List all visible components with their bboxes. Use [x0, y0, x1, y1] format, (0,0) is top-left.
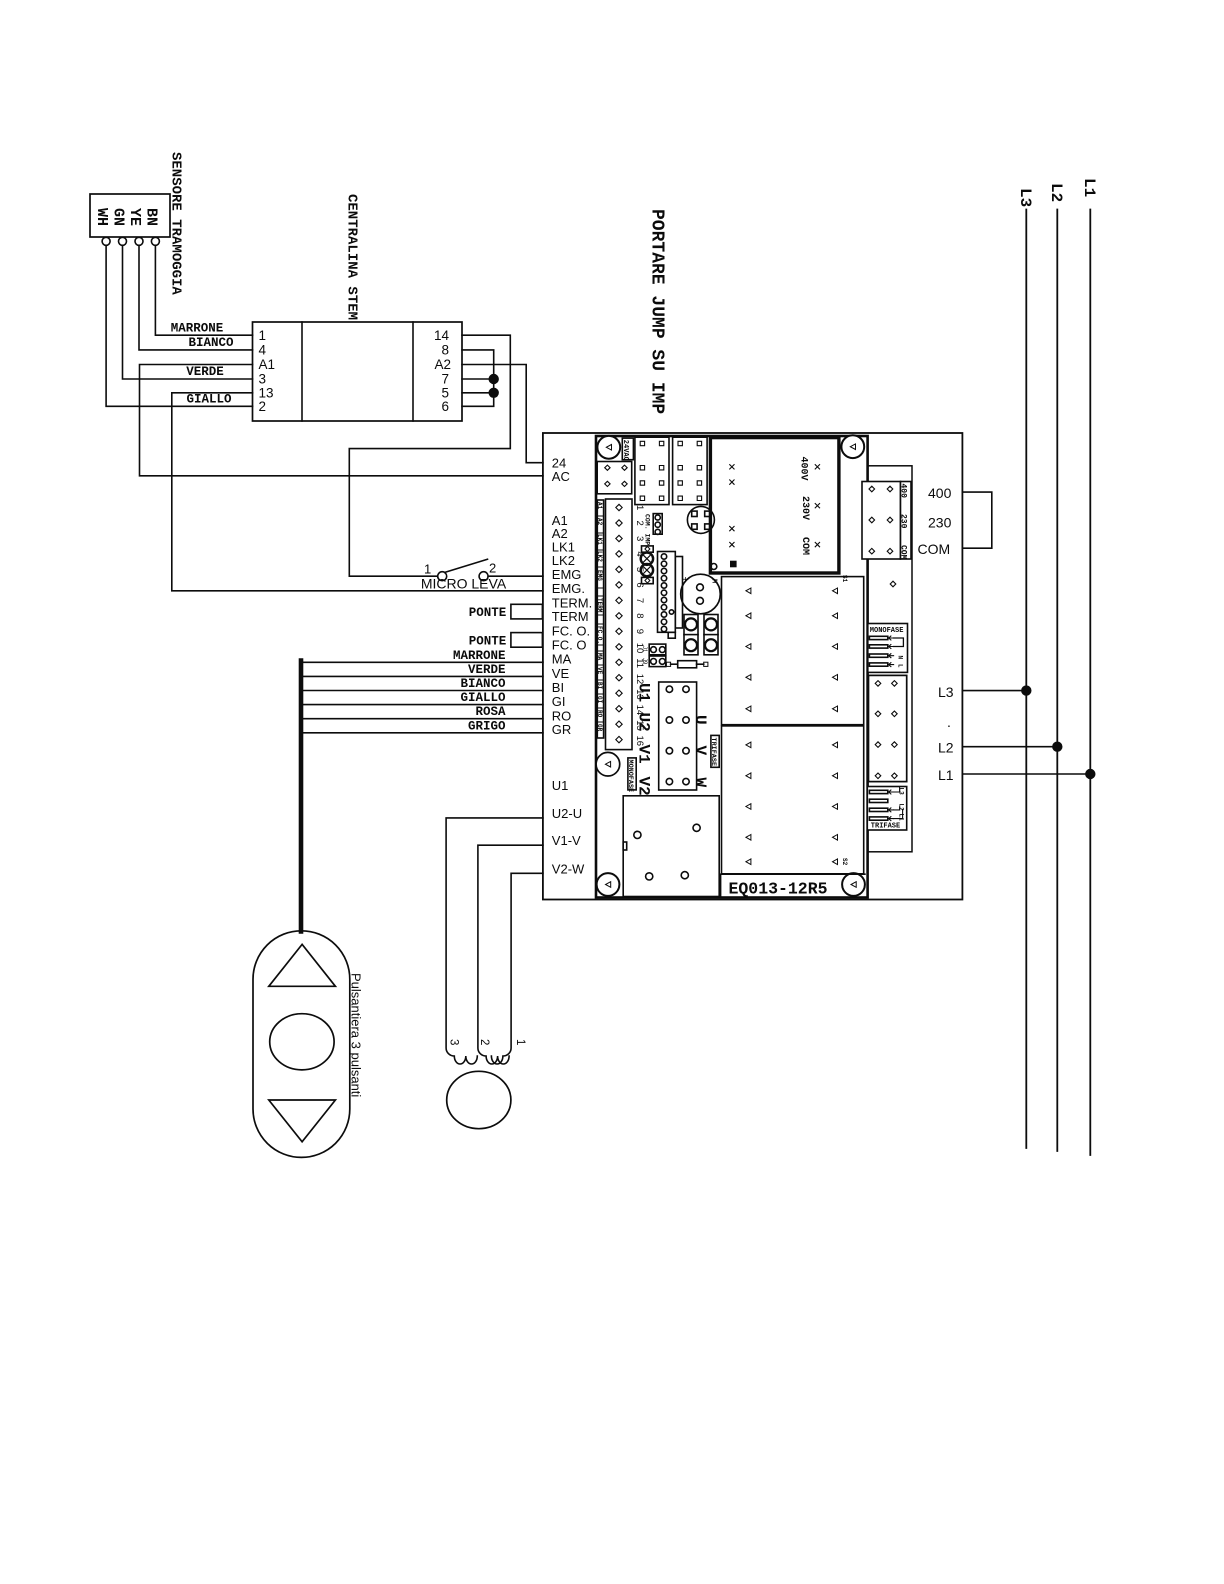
- jumper 400-COM bracket: [962, 492, 991, 548]
- pendant Pulsantiera body: [253, 931, 350, 1158]
- svg-text:L2: L2: [898, 804, 905, 812]
- wire MARRONE to MA: [303, 661, 543, 663]
- svg-text:L3: L3: [938, 684, 954, 700]
- svg-text:V2-W: V2-W: [552, 861, 585, 876]
- relay CENTRALINA STEM divider left: [301, 322, 303, 421]
- svg-text:V: V: [691, 746, 709, 756]
- svg-text:J1: J1: [641, 646, 647, 653]
- svg-text:A2: A2: [434, 357, 451, 372]
- svg-text:L3: L3: [1016, 188, 1034, 207]
- wire contact 2 to EMG terminal: [488, 575, 543, 577]
- svg-text:A1: A1: [259, 357, 276, 372]
- fuse F1: [641, 553, 653, 565]
- svg-text:U2-U: U2-U: [552, 806, 582, 821]
- svg-text:L1: L1: [898, 814, 905, 822]
- junction dot pin 5: [489, 388, 498, 397]
- svg-text:TRIFASE: TRIFASE: [871, 823, 900, 831]
- svg-text:MARRONE: MARRONE: [453, 649, 506, 663]
- svg-text:9: 9: [634, 629, 645, 634]
- connector 24VAC 2x2: [597, 462, 632, 494]
- svg-text:S2: S2: [841, 858, 848, 866]
- svg-text:EMG: EMG: [596, 570, 603, 581]
- svg-text:TRIFASE: TRIFASE: [709, 738, 717, 767]
- cable trunk to pendant: [299, 661, 304, 932]
- svg-text:8: 8: [634, 613, 645, 618]
- relay K2 block: [673, 437, 708, 504]
- svg-text:COM. IMP.: COM. IMP.: [643, 514, 650, 549]
- svg-text:COM: COM: [918, 541, 951, 557]
- wire WH to pin 2 (GIALLO): [106, 245, 252, 406]
- wire pin 5 to bus: [462, 392, 494, 394]
- svg-text:MICRO LEVA: MICRO LEVA: [421, 576, 507, 592]
- svg-text:BN: BN: [143, 208, 160, 226]
- relay CENTRALINA STEM divider right: [412, 322, 414, 421]
- connector CN7 8 pins: [869, 675, 907, 781]
- svg-text:24VAC: 24VAC: [621, 440, 629, 461]
- svg-text:FC. O.: FC. O.: [552, 624, 590, 639]
- motor wire 3 (U2-U): [446, 818, 543, 1064]
- wire pin 13 to EMG. terminal: [172, 393, 543, 591]
- junction dot L2: [1053, 742, 1062, 751]
- svg-text:VE: VE: [596, 667, 603, 675]
- wire GRIGO to GR: [303, 732, 543, 734]
- sensor terminal circle GN: [119, 237, 127, 245]
- svg-text:AC: AC: [552, 469, 570, 484]
- svg-text:RO: RO: [596, 710, 603, 718]
- fuse F2: [641, 564, 653, 576]
- svg-text:EMG.: EMG.: [552, 581, 585, 596]
- svg-text:GI: GI: [596, 696, 603, 704]
- junction dot L1: [1086, 770, 1095, 779]
- svg-text:BIANCO: BIANCO: [460, 677, 506, 691]
- silk strip terminal names: [596, 500, 604, 738]
- svg-text:M: M: [710, 579, 718, 583]
- svg-text:V1-V: V1-V: [552, 833, 581, 848]
- junction dot pin 7: [489, 375, 498, 384]
- wire board L1 to line L1: [962, 773, 1090, 775]
- sensor SENSORE TRAMOGGIA box: [90, 194, 170, 237]
- relay CENTRALINA STEM box: [253, 322, 463, 421]
- svg-text:VE: VE: [552, 666, 570, 681]
- svg-text:TERM: TERM: [596, 598, 603, 613]
- svg-text:MA: MA: [596, 653, 603, 661]
- svg-text:L2: L2: [938, 740, 954, 756]
- svg-text:Pulsantiera 3 pulsanti: Pulsantiera 3 pulsanti: [349, 973, 364, 1097]
- svg-text:400: 400: [899, 484, 908, 499]
- pendant button up arrow: [269, 944, 336, 986]
- jumper J1: [641, 644, 666, 655]
- motor wire 2 (V1-V): [478, 845, 543, 1064]
- mounting hole mid-left: [596, 752, 620, 776]
- relay RL2: [722, 726, 864, 874]
- silk label TRIFASE (left): [709, 735, 719, 767]
- svg-text:A2: A2: [596, 518, 603, 526]
- resistor R1: [666, 661, 708, 668]
- relay RL1: [722, 577, 864, 725]
- svg-text:ROSA: ROSA: [475, 705, 506, 719]
- svg-text:CENTRALINA STEM: CENTRALINA STEM: [344, 194, 360, 320]
- svg-text:A1: A1: [596, 502, 603, 510]
- sensor terminal circle WH: [102, 237, 110, 245]
- svg-text:3: 3: [259, 372, 267, 387]
- wire GN to pin 3 (VERDE): [123, 245, 253, 379]
- transformer T1: [710, 438, 839, 573]
- PCB EQ013-12R5 outline: [596, 436, 868, 898]
- svg-text:GR: GR: [552, 722, 572, 737]
- svg-text:L1: L1: [938, 767, 954, 783]
- svg-text:WH: WH: [93, 208, 110, 226]
- wire L3 vertical: [1025, 210, 1027, 1149]
- jumper link 5: [642, 577, 654, 583]
- motor circle: [447, 1071, 511, 1128]
- silk label MONOFASE (left): [626, 758, 636, 792]
- svg-text:230: 230: [928, 514, 952, 530]
- svg-text:2: 2: [489, 561, 496, 576]
- board name band: [721, 874, 865, 898]
- svg-text:FC.O.: FC.O.: [596, 626, 603, 644]
- jumper PONTE 2 (FC.O-FC.O): [511, 633, 543, 648]
- jumper link 4: [642, 546, 654, 552]
- sensor terminal circle BN: [151, 237, 159, 245]
- terminal strip X1 1-16: [606, 499, 633, 750]
- svg-text:PONTE: PONTE: [469, 634, 507, 648]
- svg-text:FC. O: FC. O: [552, 638, 587, 653]
- socket S2: [704, 615, 718, 655]
- connector CN3 3 pins: [653, 514, 662, 535]
- pendant button stop circle: [270, 1014, 334, 1070]
- wire L2 vertical: [1056, 210, 1058, 1152]
- svg-text:TERM: TERM: [552, 609, 589, 624]
- svg-text:SENSORE TRAMOGGIA: SENSORE TRAMOGGIA: [168, 152, 184, 295]
- wire GIALLO to GI: [303, 704, 543, 706]
- wire L1 vertical: [1089, 210, 1091, 1156]
- connector CN4 11 pins: [658, 552, 676, 639]
- svg-text:1: 1: [634, 505, 645, 510]
- board outer enclosure: [543, 433, 963, 900]
- svg-text:L3: L3: [898, 788, 905, 796]
- svg-text:EMG: EMG: [552, 567, 582, 582]
- wire YE to pin 4 (BIANCO): [139, 245, 253, 350]
- svg-text:W: W: [691, 778, 709, 788]
- pendant button down arrow: [269, 1100, 336, 1142]
- svg-text:VERDE: VERDE: [468, 663, 506, 677]
- PCB right bump outline: [868, 466, 912, 852]
- relay K1 block: [635, 437, 669, 504]
- svg-text:MARRONE: MARRONE: [171, 321, 224, 335]
- jumper PONTE 1 (TERM-TERM): [511, 604, 543, 619]
- svg-text:LK1: LK1: [596, 534, 603, 545]
- svg-text:7: 7: [634, 598, 645, 603]
- switch MICRO LEVA lever: [445, 559, 488, 572]
- svg-text:400: 400: [928, 485, 952, 501]
- svg-text:5: 5: [634, 567, 645, 572]
- svg-text:GI: GI: [552, 694, 566, 709]
- socket S1: [684, 615, 698, 655]
- motor wire 1 (V2-W): [491, 873, 543, 1064]
- mounting hole bottom-left: [597, 873, 620, 896]
- svg-text:PONTE: PONTE: [469, 606, 507, 620]
- wire pin 14 to micro leva contact 1: [349, 335, 510, 576]
- connector CN6 8 pins: [659, 682, 697, 790]
- svg-text:3: 3: [448, 1039, 460, 1045]
- wire board L3 to line L3: [962, 690, 1026, 692]
- svg-text:7: 7: [441, 372, 449, 387]
- svg-text:U1: U1: [552, 778, 569, 793]
- svg-text:MONOFASE: MONOFASE: [870, 627, 904, 635]
- svg-text:400V: 400V: [798, 457, 809, 481]
- junction dot L3: [1022, 686, 1031, 695]
- mounting hole top-left: [597, 436, 620, 459]
- mounting hole bottom-right: [842, 873, 865, 896]
- svg-text:1: 1: [259, 328, 267, 343]
- svg-text:2: 2: [259, 399, 267, 414]
- svg-text:6: 6: [441, 399, 449, 414]
- wire pin A1 to AC terminal: [140, 365, 543, 476]
- svg-text:S1: S1: [841, 575, 848, 583]
- switch MICRO LEVA contact 2: [479, 572, 488, 581]
- svg-text:230V: 230V: [799, 496, 810, 520]
- wire BIANCO to BI: [303, 690, 543, 692]
- svg-text:MONOFASE: MONOFASE: [626, 760, 634, 793]
- sensor terminal circle YE: [135, 237, 143, 245]
- pad single below connector: [890, 581, 896, 587]
- svg-text:2: 2: [478, 1039, 490, 1045]
- trimmer P1: [687, 506, 714, 533]
- svg-text:V1: V1: [635, 745, 653, 764]
- jumper block MONOFASE: [868, 624, 908, 673]
- svg-text:TERM.: TERM.: [552, 595, 592, 610]
- svg-text:GR: GR: [596, 724, 603, 732]
- svg-text:V2: V2: [635, 777, 653, 796]
- connector strip second row: [675, 557, 682, 629]
- svg-text:BIANCO: BIANCO: [188, 336, 234, 350]
- svg-text:MA: MA: [552, 652, 572, 667]
- wire ROSA to RO: [303, 718, 543, 720]
- svg-text:.: .: [947, 714, 951, 730]
- strip pin numbers 1-16: [634, 505, 645, 746]
- svg-text:EQ013-12R5: EQ013-12R5: [729, 879, 828, 898]
- svg-text:GN: GN: [110, 208, 127, 226]
- svg-text:BI: BI: [552, 680, 564, 695]
- svg-text:+: +: [683, 575, 689, 586]
- svg-text:GIALLO: GIALLO: [186, 392, 232, 406]
- svg-text:GRIGO: GRIGO: [468, 719, 506, 733]
- svg-text:1: 1: [424, 562, 431, 577]
- svg-text:J9: J9: [641, 658, 647, 665]
- svg-text:BI: BI: [596, 682, 603, 690]
- svg-text:VERDE: VERDE: [186, 365, 224, 379]
- svg-text:LK2: LK2: [596, 551, 603, 562]
- svg-text:230: 230: [899, 514, 908, 529]
- jumper block TRIFASE: [867, 787, 906, 831]
- silk label 24VAC: [621, 438, 634, 461]
- svg-text:U1: U1: [635, 683, 653, 702]
- mounting hole top-right: [841, 435, 864, 458]
- wire BN to pin 1 (MARRONE): [155, 245, 252, 335]
- svg-text:8: 8: [441, 343, 449, 358]
- svg-text:L1: L1: [1080, 178, 1098, 197]
- svg-text:GIALLO: GIALLO: [460, 691, 506, 705]
- switch MICRO LEVA contact 1: [438, 572, 447, 581]
- svg-text:COM: COM: [899, 545, 908, 560]
- svg-text:L2: L2: [1047, 183, 1065, 202]
- capacitor C1: [681, 574, 721, 614]
- svg-text:COM: COM: [799, 537, 810, 555]
- wire pin 7 to bus: [462, 378, 494, 380]
- svg-text:YE: YE: [126, 208, 143, 226]
- svg-text:L: L: [897, 664, 904, 668]
- wire bus pins 8-6: [462, 350, 494, 406]
- box bottom-left heatsink: [623, 796, 719, 897]
- svg-text:U: U: [691, 715, 709, 725]
- svg-text:1: 1: [514, 1039, 526, 1045]
- svg-text:U2: U2: [635, 713, 653, 732]
- wire VERDE to VE: [303, 675, 543, 677]
- connector 400/230/COM: [862, 482, 911, 560]
- wire board L2 to line L2: [962, 746, 1057, 748]
- svg-text:PORTARE JUMP SU IMP: PORTARE JUMP SU IMP: [647, 209, 667, 414]
- svg-text:14: 14: [434, 328, 450, 343]
- svg-text:4: 4: [259, 343, 267, 358]
- jumper J9: [641, 656, 666, 667]
- wire pin A2 to 24 terminal: [462, 365, 543, 463]
- svg-text:N: N: [897, 656, 904, 660]
